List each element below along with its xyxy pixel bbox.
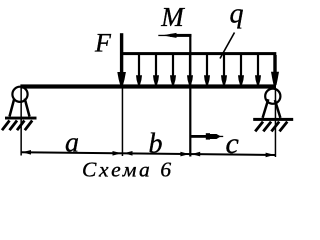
dimension line xyxy=(21,151,276,156)
left support centerline / dimension tick at x=21 xyxy=(20,86,22,156)
distributed load arrow 4 xyxy=(187,55,193,85)
svg-text:q: q xyxy=(230,0,244,29)
pin support right: ground line xyxy=(253,118,293,121)
force F: arrow shaft xyxy=(120,33,123,76)
moment M: top arrow (points left) xyxy=(158,33,191,38)
dimension arrowhead left end (points left) xyxy=(22,150,31,155)
svg-text:Схема 6: Схема 6 xyxy=(82,157,174,181)
svg-text:b: b xyxy=(149,128,163,159)
svg-text:c: c xyxy=(226,127,239,160)
svg-text:M: M xyxy=(160,2,185,32)
pin support left: triangle legs xyxy=(10,99,30,117)
distributed load q: leader line xyxy=(220,33,235,59)
dimension arrowheads at x=190 xyxy=(180,152,189,157)
distributed load right edge arrow xyxy=(271,55,279,85)
distributed load arrow 2 xyxy=(153,55,159,85)
moment M: bottom arrow (points right) xyxy=(190,133,223,139)
right dimension tick at x=275.5 xyxy=(275,88,277,157)
pin support left: circle xyxy=(12,87,27,102)
dimension arrowheads at x=122.5 xyxy=(113,151,122,156)
pin support left: ground hatching xyxy=(2,121,32,131)
distributed load arrow 8 xyxy=(255,55,261,85)
distributed load q: top line xyxy=(120,52,276,55)
distributed load arrow 5 xyxy=(204,55,210,85)
beam xyxy=(20,84,276,88)
distributed load arrow 7 xyxy=(238,55,244,85)
pin support right: triangle legs xyxy=(263,99,281,118)
distributed load arrow 6 xyxy=(221,55,227,85)
distributed load arrow 1 xyxy=(136,55,142,85)
moment M: vertical line xyxy=(189,34,191,157)
svg-text:a: a xyxy=(65,127,79,158)
force F: arrowhead xyxy=(117,72,126,85)
pin support right: ground hatching xyxy=(255,122,287,132)
svg-text:F: F xyxy=(94,29,112,58)
distributed load arrow 3 xyxy=(170,55,176,85)
dimension arrowhead right end (points right) xyxy=(266,153,275,158)
pin support left: ground line xyxy=(5,117,37,120)
dimension tick at x=122.5 (below F) xyxy=(122,89,124,157)
pin support right: circle xyxy=(265,89,280,104)
